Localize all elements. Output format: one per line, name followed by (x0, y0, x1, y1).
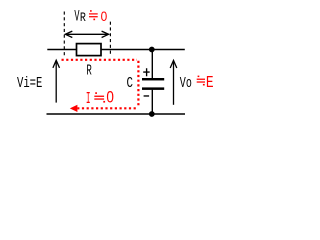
current loop dotted bottom red (78, 107, 136, 109)
current loop dotted right red (137, 61, 139, 106)
symbol approx equal (Vo) red (197, 76, 205, 86)
svg-text:R: R (86, 62, 92, 79)
arrow Vo (output voltage) (173, 62, 175, 105)
wire bottom horizontal (47, 113, 186, 115)
measure arrow VR double-headed (67, 33, 108, 35)
svg-text:V: V (74, 8, 79, 25)
svg-text:0: 0 (106, 88, 114, 107)
symbol approx equal (I) red (94, 92, 105, 102)
wire capacitor top lead (151, 50, 153, 79)
current loop arrowhead red (70, 105, 78, 112)
current loop dotted top red (62, 59, 138, 61)
svg-text:C: C (127, 74, 134, 91)
capacitor minus polarity (144, 95, 150, 96)
node junction bottom (149, 111, 155, 117)
dashed extension line right (109, 22, 111, 56)
svg-text:R: R (80, 11, 86, 26)
capacitor plus polarity (143, 68, 150, 76)
svg-text:Vi=E: Vi=E (17, 74, 43, 91)
node junction top (149, 47, 155, 53)
svg-text:0: 0 (101, 8, 108, 24)
svg-text:Vo: Vo (180, 74, 192, 92)
svg-text:E: E (206, 72, 214, 92)
wire capacitor bottom lead (151, 90, 153, 114)
wire top horizontal (47, 49, 185, 51)
resistor R (77, 44, 102, 56)
dashed extension line left (63, 12, 65, 56)
arrow Vi (input voltage) (55, 62, 57, 103)
capacitor C plates (142, 78, 164, 80)
symbol approx equal (VR) red (89, 10, 98, 20)
svg-text:I: I (86, 89, 91, 108)
